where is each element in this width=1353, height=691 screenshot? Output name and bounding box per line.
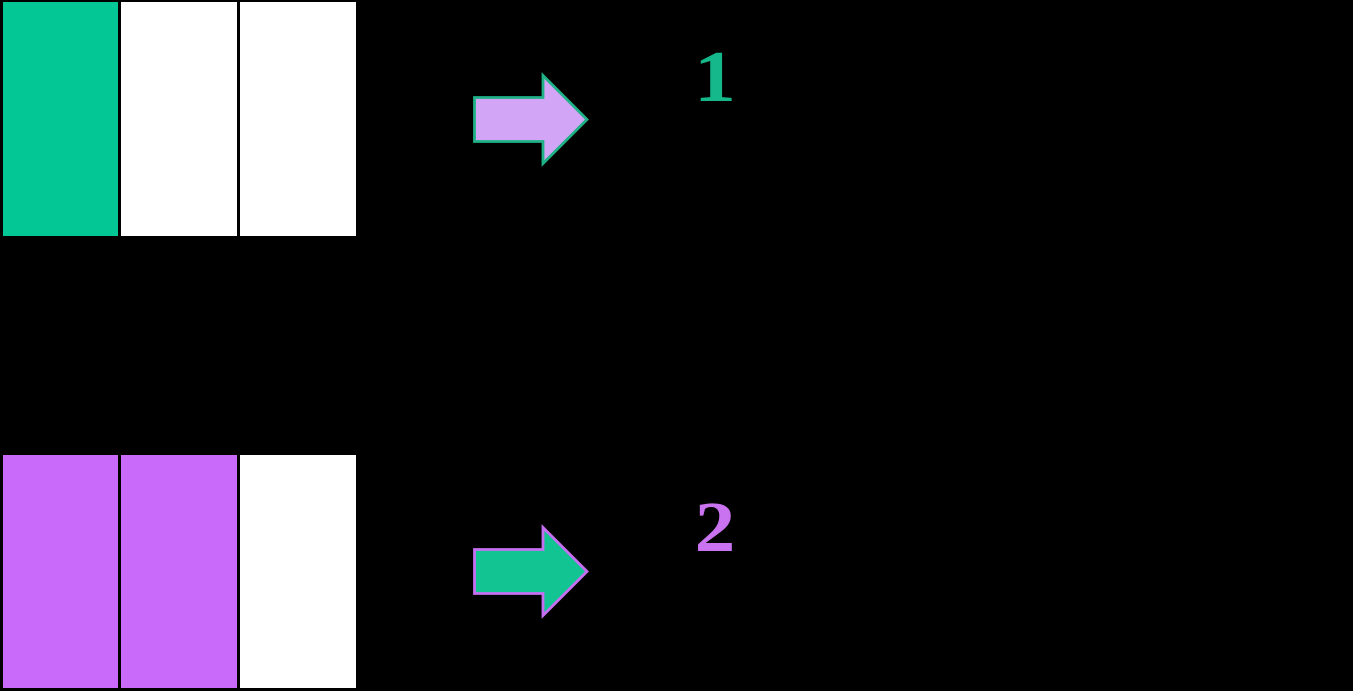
bar1 cell 1 teal xyxy=(3,2,119,236)
numeral 2 (purple) xyxy=(681,491,749,563)
numeral 1 (teal) xyxy=(680,40,749,113)
arrow 2 (teal fill, purple outline) xyxy=(475,528,588,616)
fraction bar 1 (top-left, 1/3 shaded teal) xyxy=(0,0,356,239)
bar2 cell 1 purple xyxy=(3,455,119,688)
bar1 cell 2 white xyxy=(121,2,237,236)
fraction bar 2 (bottom-left, 2/3 shaded purple) xyxy=(0,453,356,691)
bar2 cell 2 purple xyxy=(121,455,237,688)
bar1 cell 3 white xyxy=(240,2,356,236)
bar2 cell 3 white xyxy=(240,455,356,688)
